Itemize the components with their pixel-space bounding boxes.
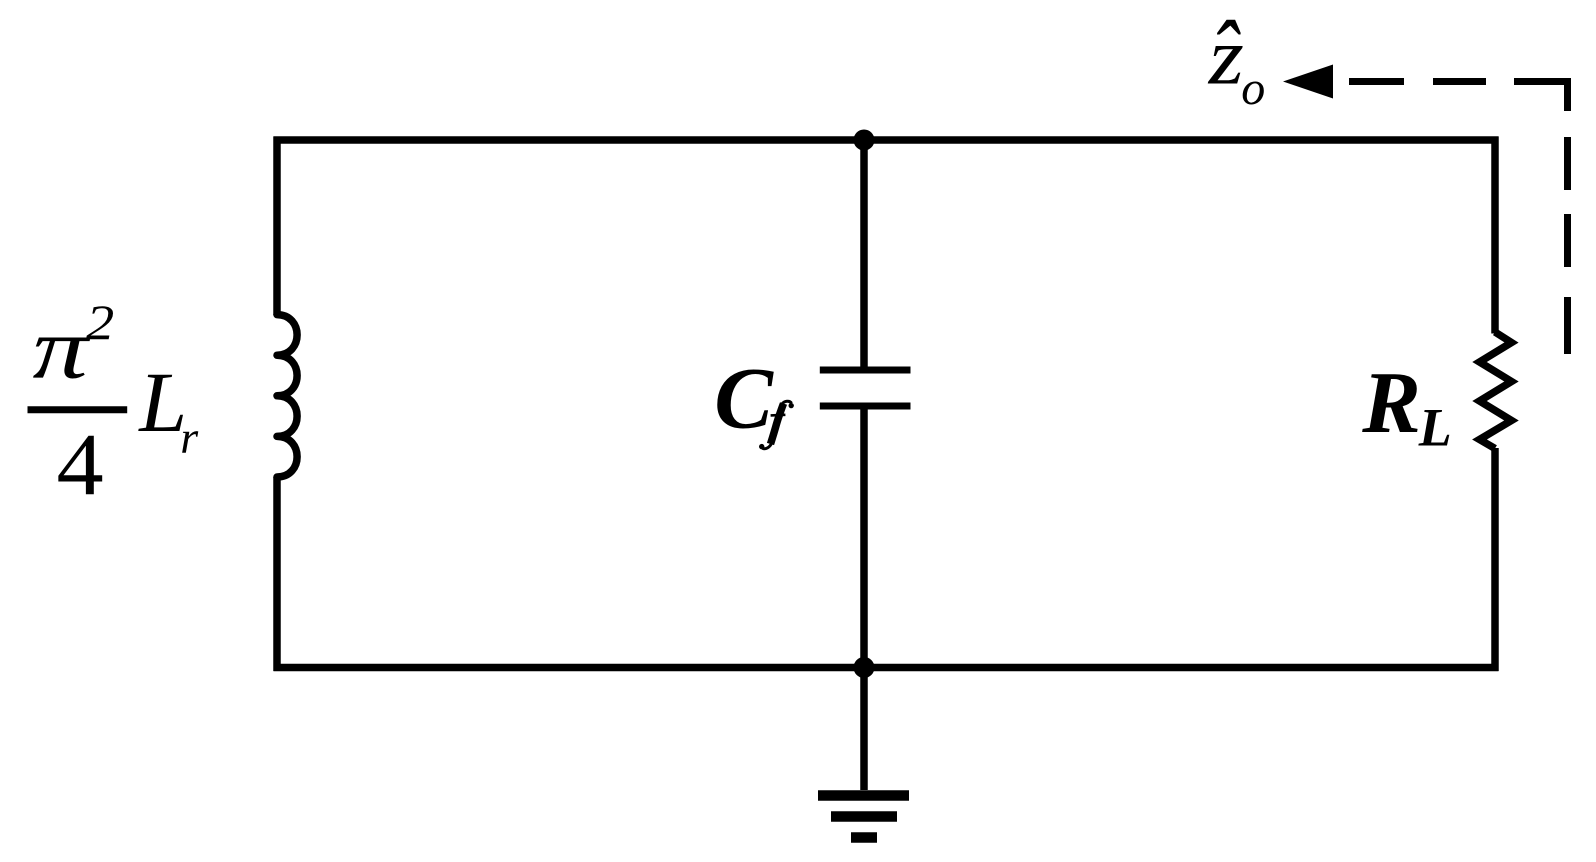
svg-text:ˆ: ˆ	[1210, 1, 1241, 111]
capacitor branch wire upper	[860, 140, 868, 368]
impedance probe dashed line horizontal	[1349, 82, 1568, 355]
svg-text:r: r	[180, 412, 199, 463]
capacitor Cf bottom plate	[820, 403, 911, 410]
dash v2	[1564, 214, 1571, 267]
label Cf	[714, 351, 774, 448]
wire left upper	[273, 137, 281, 316]
svg-text:o: o	[1241, 62, 1265, 115]
ground bar 3	[851, 832, 877, 843]
dash h1	[1349, 78, 1404, 85]
arrowhead of impedance probe	[1283, 65, 1333, 99]
dash v1	[1564, 137, 1571, 190]
svg-text:L: L	[1418, 397, 1452, 457]
wire bottom	[274, 664, 1499, 672]
label z hat	[1208, 10, 1244, 101]
resistor RL zigzag	[1480, 332, 1512, 449]
inductor L coil	[277, 315, 297, 477]
capacitor branch wire lower	[860, 408, 868, 668]
label pi	[33, 299, 92, 396]
label r subscript	[180, 412, 199, 463]
svg-text:C: C	[714, 351, 774, 448]
label RL	[1361, 355, 1421, 452]
label exponent 2	[86, 294, 114, 350]
dash corner	[1514, 82, 1568, 112]
node junction dot top	[854, 130, 875, 151]
label f subscript	[759, 401, 794, 449]
fraction bar	[28, 406, 128, 413]
svg-text:4: 4	[57, 415, 104, 514]
ground bar 2	[831, 811, 897, 822]
svg-text:2: 2	[86, 294, 114, 350]
ground bar 1	[818, 790, 909, 801]
wire left lower	[273, 477, 281, 671]
label L of Lr	[137, 354, 187, 450]
ground lead wire	[860, 668, 868, 791]
node junction dot bottom	[854, 657, 875, 678]
svg-text:R: R	[1361, 355, 1421, 452]
label o subscript	[1241, 62, 1265, 115]
hat accent	[1210, 1, 1241, 111]
capacitor Cf top plate	[820, 367, 911, 374]
svg-text:π: π	[33, 299, 92, 396]
dash h2	[1433, 78, 1486, 85]
dash v3	[1564, 297, 1571, 354]
wire right lower	[1491, 448, 1499, 671]
label L subscript of RL	[1418, 397, 1452, 457]
label 4	[57, 415, 104, 514]
wire top	[274, 136, 1499, 144]
wire right upper	[1491, 137, 1499, 334]
ground symbol	[818, 796, 909, 838]
